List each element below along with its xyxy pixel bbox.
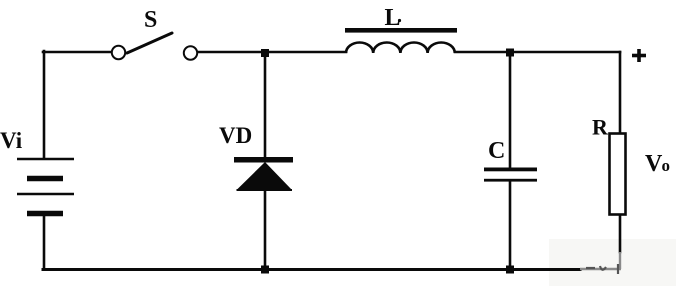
svg-text:o: o [662, 156, 671, 175]
svg-text:Vi: Vi [0, 128, 23, 153]
svg-text:L: L [385, 5, 401, 31]
svg-text:R: R [592, 115, 609, 140]
svg-text:VD: VD [219, 123, 252, 148]
svg-text:C: C [488, 138, 505, 164]
svg-text:V: V [645, 151, 663, 177]
svg-text:S: S [144, 7, 157, 33]
